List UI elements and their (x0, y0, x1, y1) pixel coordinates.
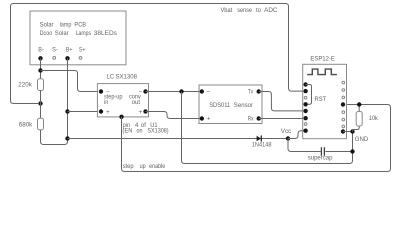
svg-text:PCB: PCB (74, 22, 86, 29)
pin LC in- dot (99, 89, 103, 93)
wire divider middle (40, 90, 42, 118)
svg-text:+: + (106, 109, 110, 116)
wire LC out- to SDS011 minus (146, 91, 200, 93)
pin ESP R3 circle (342, 96, 345, 99)
wire 680k bottom to B+ rail (41, 130, 68, 145)
diode 1N4148 (257, 136, 261, 141)
box ESP12-E (303, 64, 347, 138)
svg-text:Rx: Rx (248, 116, 254, 123)
pin ESP R5 circle (342, 111, 345, 114)
node GND riser dot (350, 129, 354, 133)
svg-text:−: − (207, 88, 211, 95)
svg-text:Lamps: Lamps (76, 30, 91, 37)
svg-text:Solar: Solar (55, 30, 69, 37)
svg-text:10k: 10k (369, 115, 379, 122)
wire B+ to LC in+ (68, 111, 99, 113)
svg-text:lamp: lamp (60, 22, 72, 29)
node J1 dot on B- wire (38, 68, 42, 72)
svg-text:SDS011: SDS011 (209, 102, 231, 109)
wire enable: LC EN down, bottom rail, right riser, to ESP (122, 105, 391, 172)
pin SDS minus dot (200, 89, 204, 93)
pin ESP L7 circle (304, 123, 307, 126)
wire B- down to divider (40, 58, 42, 103)
svg-text:S+: S+ (79, 47, 86, 53)
pin ESP L4 dot (303, 102, 307, 106)
svg-text:in: in (104, 99, 109, 106)
pin ESP R7 circle (342, 125, 345, 128)
svg-text:Tx: Tx (248, 89, 254, 96)
pin ESP R8 dot (GND) (341, 129, 345, 133)
box SDS011 Sensor (199, 85, 262, 124)
svg-text:to: to (256, 7, 262, 14)
wire Vcc jog up to ESP Vcc pin (288, 131, 306, 139)
box solar lamp PCB (30, 11, 126, 65)
svg-text:S-: S- (52, 47, 58, 53)
svg-text:on: on (137, 128, 143, 135)
pin S- open circle (53, 57, 56, 60)
pin ESP L1 dot (303, 82, 307, 86)
svg-text:supercap: supercap (308, 154, 333, 161)
resistor 680k (38, 118, 44, 130)
wire B+ rail to Vcc (68, 138, 289, 140)
pin LC out- dot (143, 89, 147, 93)
pin SDS Rx dot (257, 116, 261, 120)
wire J1 jog to LC in- (41, 71, 99, 92)
svg-text:B+: B+ (66, 47, 73, 53)
resistor 10k (353, 105, 360, 132)
svg-text:SX1308): SX1308) (147, 128, 168, 135)
node supercap GND dot (350, 149, 354, 153)
pin ESP L8 dot (Vcc) (303, 129, 307, 133)
wire SDS Tx jog to ESP (259, 92, 303, 111)
svg-text:220k: 220k (18, 83, 33, 89)
pin S+ open circle (79, 57, 82, 60)
node 10k top dot (357, 102, 361, 106)
wire SDS Rx to ESP (259, 118, 303, 120)
node Vcc dot (286, 136, 290, 140)
pin ESP L2 dot (ADC) (303, 89, 307, 93)
pin LC in+ dot (99, 109, 103, 113)
svg-text:−: − (139, 88, 143, 95)
pin ESP L3 circle (RST) (304, 96, 307, 99)
svg-text:1N4148: 1N4148 (252, 143, 272, 149)
node J2 dot divider tap (38, 101, 42, 105)
resistor 220k (38, 79, 44, 91)
svg-text:B-: B- (38, 47, 44, 53)
box LC SX1308 (97, 84, 148, 117)
svg-text:ESP12-E: ESP12-E (310, 55, 334, 62)
pin SDS plus dot (200, 116, 204, 120)
svg-text:up: up (140, 163, 147, 170)
wire Vbat sense loop: divider tap to ESP ADC (11, 4, 304, 104)
svg-text:38LEDs: 38LEDs (94, 30, 117, 37)
pin B+ dot (65, 56, 69, 60)
pin ESP R1 circle (342, 81, 345, 84)
capacitor supercap (321, 147, 324, 155)
svg-text:Vbat: Vbat (221, 7, 233, 14)
svg-text:LC: LC (107, 74, 115, 81)
wire Vcc down to supercap (288, 139, 321, 152)
wire B+ down (67, 58, 69, 138)
wire ESP GND to riser junction (343, 131, 353, 133)
svg-text:(EN: (EN (122, 128, 132, 135)
svg-text:out: out (132, 99, 141, 106)
svg-text:+: + (207, 116, 211, 123)
wire supercap right to GND riser (325, 151, 352, 153)
node B+ to LC in+ dot (65, 109, 69, 113)
svg-text:Dcoo: Dcoo (40, 30, 53, 37)
svg-text:Vcc: Vcc (281, 128, 291, 135)
wire GND drop and rail (182, 92, 353, 164)
pin ESP L5 dot (Tx in) (303, 109, 307, 113)
pin ESP L6 dot (Rx in) (303, 116, 307, 120)
pin B- dot (38, 56, 42, 60)
pin ESP R4 dot (enable) (341, 102, 345, 106)
node B+ rail dot (65, 136, 69, 140)
pin LC EN dot (119, 115, 123, 119)
pin SDS Tx dot (257, 89, 261, 93)
svg-text:Solar: Solar (40, 22, 54, 29)
pin ESP R2 circle (342, 89, 345, 92)
svg-text:step: step (123, 163, 134, 170)
wire bracket GPIO16 to RST (306, 85, 312, 105)
svg-text:680k: 680k (19, 123, 34, 129)
wire LC out+ jog to SDS011 plus (146, 112, 200, 119)
svg-text:RST: RST (315, 96, 327, 103)
svg-text:SX1308: SX1308 (116, 74, 138, 81)
antenna meander (307, 69, 337, 75)
pin ESP R6 circle (342, 118, 345, 121)
pin LC out+ dot (143, 109, 147, 113)
svg-text:Sensor: Sensor (234, 102, 253, 109)
node GND drop junction dot (179, 89, 183, 93)
svg-text:enable: enable (149, 163, 166, 170)
svg-text:ADC: ADC (264, 7, 278, 14)
svg-text:sense: sense (237, 7, 252, 14)
svg-text:GND: GND (355, 136, 369, 143)
svg-text:+: + (139, 109, 143, 116)
